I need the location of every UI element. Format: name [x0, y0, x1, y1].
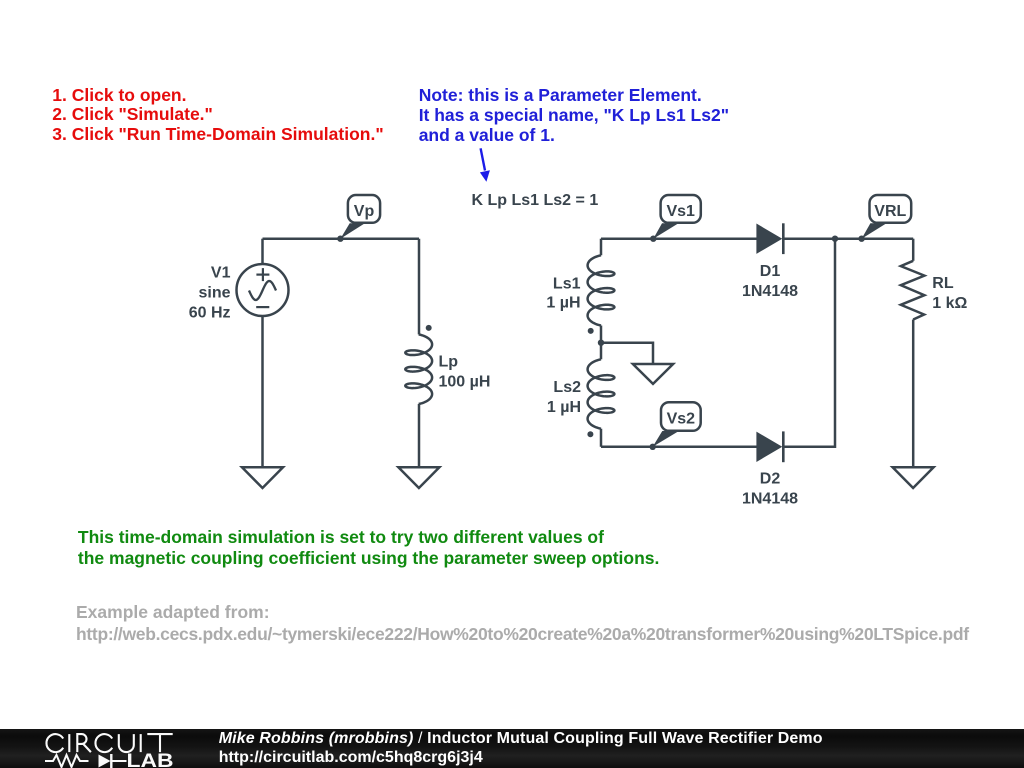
- green note text: [78, 527, 659, 570]
- svg-text:1 kΩ: 1 kΩ: [932, 295, 967, 312]
- svg-text:100 µH: 100 µH: [439, 373, 491, 390]
- wire Lp top lead: [418, 239, 421, 335]
- wire top-left rail: [263, 237, 420, 240]
- wire RL top lead: [912, 239, 915, 261]
- label RL value: [932, 275, 967, 312]
- label Lp value: [439, 353, 491, 390]
- footer bar: [0, 729, 1024, 768]
- wire center tap to ground: [601, 343, 653, 364]
- svg-text:Vs1: Vs1: [666, 203, 695, 220]
- svg-text:K Lp Ls1 Ls2 = 1: K Lp Ls1 Ls2 = 1: [472, 192, 599, 209]
- wire Ls1 top lead: [600, 239, 603, 256]
- ground under Lp: [398, 467, 439, 488]
- node junction D2 branch: [832, 236, 838, 242]
- inductor Ls2: [588, 359, 615, 428]
- footer url text: [219, 749, 483, 767]
- node VRL flag: [858, 195, 911, 242]
- wire V1 bottom lead: [261, 316, 264, 468]
- svg-text:Lp: Lp: [439, 353, 459, 370]
- svg-text:D1: D1: [760, 263, 781, 280]
- diode D1: [757, 223, 783, 254]
- svg-text:LAB: LAB: [127, 751, 174, 768]
- ground under V1: [242, 467, 283, 488]
- label D1 value: [742, 263, 798, 300]
- wire Lp bottom lead: [418, 404, 421, 467]
- resistor RL: [901, 261, 925, 320]
- svg-text:1 µH: 1 µH: [546, 295, 580, 312]
- svg-text:1 µH: 1 µH: [547, 399, 581, 416]
- svg-text:RL: RL: [932, 275, 954, 292]
- svg-text:1N4148: 1N4148: [742, 491, 798, 508]
- diode D2: [757, 431, 783, 462]
- ground center tap: [633, 364, 673, 384]
- wire RL bottom lead: [912, 320, 915, 468]
- label D2 value: [742, 471, 798, 508]
- blue note text: [419, 85, 729, 146]
- inductor Ls1: [588, 255, 615, 325]
- Ls2 phase dot: [587, 431, 593, 437]
- ground under RL: [893, 467, 934, 488]
- svg-text:sine: sine: [198, 284, 230, 301]
- blue arrow: [480, 148, 490, 182]
- red instruction text: [52, 86, 383, 145]
- wire Ls2 top lead: [600, 343, 603, 360]
- Lp phase dot: [426, 325, 432, 331]
- inductor Lp: [405, 334, 432, 404]
- gray attribution text: [76, 602, 969, 645]
- wire Ls1 bottom lead: [600, 326, 603, 343]
- wire bottom rail to D2: [601, 446, 757, 449]
- svg-text:Ls2: Ls2: [553, 379, 581, 396]
- label V1 value: [189, 264, 231, 321]
- svg-text:Vp: Vp: [354, 203, 375, 220]
- wire D2 cathode to branch: [784, 239, 835, 447]
- svg-text:Vs2: Vs2: [667, 410, 696, 427]
- svg-text:1N4148: 1N4148: [742, 283, 798, 300]
- wire top-right rail to D1: [601, 237, 757, 240]
- svg-text:Ls1: Ls1: [553, 275, 581, 292]
- Ls1 phase dot: [588, 328, 594, 334]
- svg-text:60 Hz: 60 Hz: [189, 304, 231, 321]
- wire V1 top lead: [261, 239, 264, 265]
- footer title text: [219, 730, 823, 748]
- node Vp flag: [337, 195, 380, 242]
- svg-text:V1: V1: [211, 264, 231, 281]
- svg-text:D2: D2: [760, 471, 781, 488]
- label Ls1 value: [546, 275, 580, 311]
- wire D1 cathode to RL: [784, 237, 913, 240]
- wire Ls2 bottom lead: [600, 429, 603, 447]
- label Ls2 value: [547, 379, 581, 416]
- node Vs2 flag: [650, 402, 701, 450]
- voltage source V1: [237, 264, 289, 316]
- node Vs1 flag: [650, 195, 701, 242]
- svg-text:VRL: VRL: [874, 203, 906, 220]
- CircuitLab logo: [0, 729, 200, 768]
- node center tap junction: [598, 340, 604, 346]
